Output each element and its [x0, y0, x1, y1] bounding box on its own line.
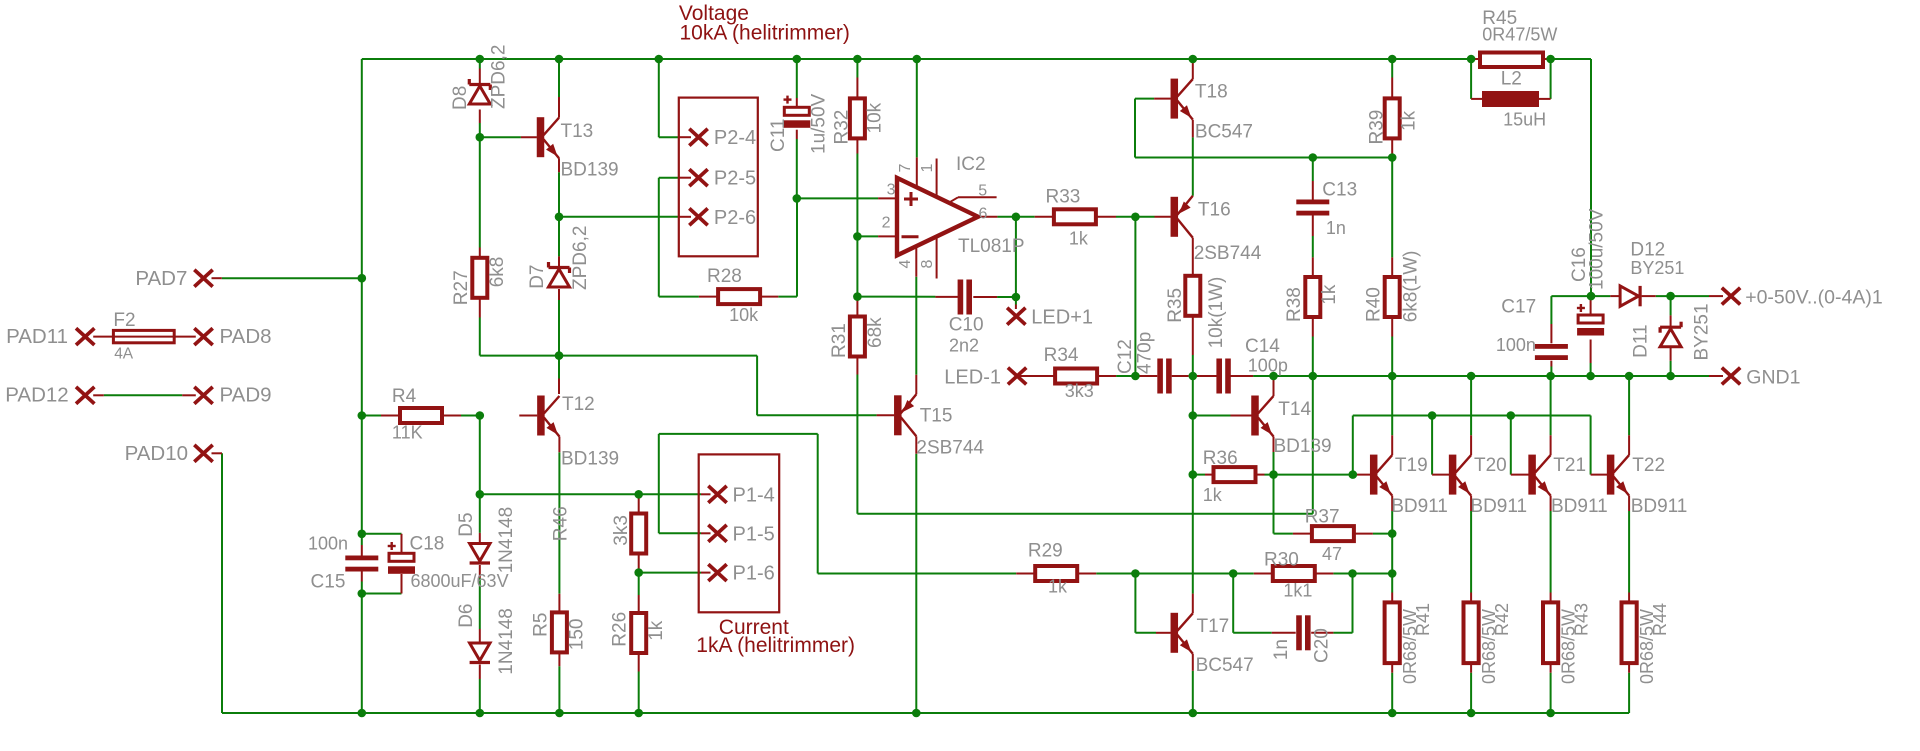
svg-text:3: 3: [887, 181, 896, 198]
svg-text:6: 6: [979, 206, 988, 223]
svg-text:11K: 11K: [392, 423, 423, 443]
svg-text:R42: R42: [1492, 603, 1512, 636]
svg-text:PAD7: PAD7: [135, 267, 187, 290]
svg-text:PAD12: PAD12: [5, 384, 68, 407]
svg-text:+0-50V..(0-4A)1: +0-50V..(0-4A)1: [1745, 287, 1883, 309]
svg-text:T15: T15: [920, 406, 953, 427]
svg-text:BD911: BD911: [1631, 496, 1688, 517]
svg-text:1k: 1k: [646, 620, 667, 641]
svg-text:T17: T17: [1197, 616, 1230, 637]
svg-text:T21: T21: [1553, 455, 1586, 476]
svg-text:C10: C10: [949, 315, 984, 336]
svg-text:10kA (helitrimmer): 10kA (helitrimmer): [680, 22, 850, 45]
svg-text:1: 1: [919, 164, 936, 173]
svg-text:2: 2: [882, 215, 891, 232]
svg-text:2SB744: 2SB744: [1194, 243, 1262, 264]
svg-text:1n: 1n: [1271, 639, 1292, 660]
svg-text:T14: T14: [1278, 399, 1311, 420]
svg-text:R31: R31: [829, 323, 850, 358]
svg-text:R32: R32: [832, 110, 853, 145]
svg-text:1N4148: 1N4148: [496, 608, 517, 675]
svg-text:R44: R44: [1650, 603, 1670, 636]
svg-text:1n: 1n: [1326, 218, 1346, 238]
svg-text:C20: C20: [1312, 628, 1333, 663]
svg-text:R28: R28: [707, 266, 742, 287]
svg-text:1k: 1k: [1203, 485, 1223, 505]
svg-text:BD139: BD139: [1274, 436, 1332, 457]
svg-text:T19: T19: [1395, 455, 1428, 476]
svg-text:ZPD6,2: ZPD6,2: [570, 226, 591, 290]
svg-text:R38: R38: [1284, 287, 1305, 322]
svg-text:R26: R26: [609, 612, 630, 647]
svg-text:R37: R37: [1305, 507, 1340, 528]
svg-text:GND1: GND1: [1746, 366, 1800, 388]
svg-text:4: 4: [897, 260, 914, 269]
svg-text:D5: D5: [456, 512, 477, 536]
svg-text:BY251: BY251: [1692, 303, 1713, 360]
svg-text:1k1: 1k1: [1283, 581, 1312, 601]
svg-text:C11: C11: [768, 119, 789, 152]
svg-text:R36: R36: [1203, 448, 1238, 469]
svg-text:1u/50V: 1u/50V: [809, 93, 830, 154]
svg-text:3k3: 3k3: [611, 515, 632, 546]
svg-text:1k: 1k: [1399, 110, 1420, 131]
svg-text:T18: T18: [1195, 81, 1228, 102]
svg-text:R43: R43: [1571, 603, 1591, 636]
svg-text:PAD8: PAD8: [220, 325, 272, 348]
svg-text:R4: R4: [392, 386, 417, 407]
svg-text:T12: T12: [562, 394, 595, 415]
svg-text:D11: D11: [1630, 324, 1651, 357]
svg-text:R30: R30: [1264, 550, 1299, 571]
svg-text:1k: 1k: [1048, 577, 1068, 597]
svg-text:5: 5: [978, 182, 987, 199]
svg-text:BY251: BY251: [1630, 258, 1684, 278]
svg-text:1k: 1k: [1319, 284, 1340, 305]
svg-text:R46: R46: [551, 506, 572, 541]
svg-text:15uH: 15uH: [1503, 109, 1546, 129]
svg-text:LED+1: LED+1: [1031, 306, 1093, 328]
svg-text:R33: R33: [1046, 187, 1081, 208]
svg-text:R34: R34: [1044, 345, 1079, 366]
svg-text:C18: C18: [410, 534, 445, 555]
svg-text:2n2: 2n2: [949, 335, 979, 355]
svg-text:T13: T13: [561, 121, 594, 142]
svg-text:6k8(1W): 6k8(1W): [1401, 251, 1422, 323]
svg-text:C12: C12: [1115, 339, 1136, 374]
svg-text:BC547: BC547: [1195, 121, 1253, 142]
svg-text:TL081P: TL081P: [958, 236, 1025, 257]
svg-text:ZPD6,2: ZPD6,2: [489, 45, 510, 109]
svg-text:100p: 100p: [1248, 356, 1288, 376]
svg-text:R5: R5: [531, 613, 552, 637]
svg-text:BC547: BC547: [1196, 655, 1254, 676]
svg-text:1k: 1k: [1069, 229, 1089, 249]
svg-text:3k3: 3k3: [1065, 381, 1094, 401]
svg-text:R29: R29: [1028, 541, 1063, 562]
svg-text:D8: D8: [450, 86, 471, 110]
svg-text:R27: R27: [451, 270, 472, 305]
svg-text:10k: 10k: [729, 305, 759, 325]
svg-text:100n: 100n: [308, 533, 348, 553]
svg-text:0R47/5W: 0R47/5W: [1482, 25, 1557, 45]
svg-text:150: 150: [567, 618, 588, 650]
svg-text:BD911: BD911: [1551, 496, 1608, 517]
svg-text:D6: D6: [456, 604, 477, 628]
svg-text:100u/50V: 100u/50V: [1587, 208, 1608, 290]
svg-text:C14: C14: [1245, 336, 1280, 357]
svg-text:C17: C17: [1501, 297, 1536, 318]
svg-text:4A: 4A: [114, 345, 134, 362]
svg-text:C15: C15: [311, 572, 346, 593]
svg-text:PAD9: PAD9: [220, 384, 272, 407]
svg-text:47: 47: [1322, 544, 1342, 564]
svg-text:68k: 68k: [865, 317, 886, 348]
svg-text:L2: L2: [1501, 69, 1522, 90]
svg-text:PAD11: PAD11: [6, 325, 68, 348]
svg-text:10k: 10k: [865, 102, 886, 133]
svg-text:2SB744: 2SB744: [916, 438, 984, 459]
svg-text:1N4148: 1N4148: [496, 507, 517, 574]
svg-text:8: 8: [919, 260, 936, 269]
svg-text:P1-6: P1-6: [733, 563, 775, 585]
svg-text:T20: T20: [1474, 455, 1507, 476]
svg-text:F2: F2: [113, 310, 135, 331]
svg-text:100n: 100n: [1496, 335, 1536, 355]
svg-text:R39: R39: [1367, 110, 1388, 145]
svg-text:PAD10: PAD10: [125, 442, 188, 465]
svg-text:1kA (helitrimmer): 1kA (helitrimmer): [696, 634, 855, 657]
svg-text:470p: 470p: [1135, 332, 1156, 374]
svg-text:R40: R40: [1364, 287, 1385, 322]
svg-text:BD911: BD911: [1391, 496, 1448, 517]
svg-text:D7: D7: [527, 265, 548, 289]
svg-text:C13: C13: [1322, 179, 1357, 200]
svg-text:BD911: BD911: [1470, 496, 1527, 517]
svg-text:10k(1W): 10k(1W): [1206, 277, 1227, 349]
svg-text:6800uF/63V: 6800uF/63V: [411, 571, 509, 591]
svg-text:LED-1: LED-1: [944, 366, 1001, 388]
svg-text:R35: R35: [1165, 288, 1186, 323]
svg-text:IC2: IC2: [956, 154, 986, 175]
svg-text:P2-4: P2-4: [714, 127, 756, 149]
svg-text:T22: T22: [1632, 455, 1665, 476]
svg-text:P1-5: P1-5: [733, 523, 775, 545]
svg-text:T16: T16: [1198, 200, 1231, 221]
svg-text:BD139: BD139: [561, 160, 619, 181]
svg-text:BD139: BD139: [561, 448, 619, 469]
svg-text:7: 7: [897, 164, 914, 173]
svg-text:P2-6: P2-6: [714, 207, 756, 229]
svg-text:6k8: 6k8: [487, 257, 508, 288]
svg-text:P2-5: P2-5: [714, 168, 756, 190]
svg-text:P1-4: P1-4: [733, 484, 775, 506]
svg-text:R41: R41: [1413, 603, 1433, 636]
